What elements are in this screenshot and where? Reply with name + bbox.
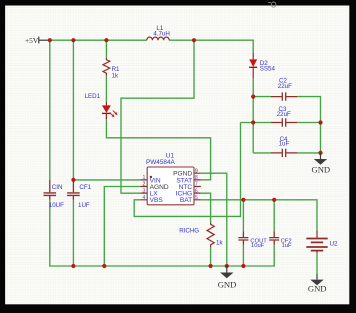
wire CF1 bottom [72, 200, 74, 267]
pin 1 marker dot [150, 176, 152, 178]
wire +5V rail left of L1 [48, 39, 147, 41]
svg-text:22uF: 22uF [278, 83, 292, 90]
svg-text:PW4584A: PW4584A [146, 159, 176, 166]
svg-text:CIN: CIN [52, 184, 63, 191]
svg-text:4: 4 [143, 195, 146, 201]
svg-text:+5V: +5V [25, 36, 39, 45]
wire COUT bottom [242, 245, 244, 267]
stray grey glyph top edge [268, 2, 276, 7]
svg-text:LED1: LED1 [85, 93, 101, 100]
svg-text:BAT: BAT [180, 197, 192, 204]
wire AGND pin to ground rail [104, 187, 140, 267]
wire ICHG pin to RICHG [201, 193, 211, 222]
wire ground rail [50, 200, 274, 267]
wire R1 drop [105, 40, 107, 58]
svg-text:1UF: 1UF [78, 202, 90, 209]
svg-text:6: 6 [195, 188, 198, 194]
node GND rail junctions [71, 264, 75, 268]
wire LED1 cathode to STAT pin [106, 117, 210, 180]
svg-text:3: 3 [143, 188, 146, 194]
wire VBS net under IC [134, 123, 240, 217]
wire C3 row [241, 122, 321, 124]
svg-text:2: 2 [143, 182, 146, 188]
wire VIN pin to CF1 junction [73, 179, 140, 181]
svg-text:SS54: SS54 [260, 66, 276, 73]
wire CF2 top [273, 200, 275, 232]
wire U2 bottom to GND [316, 253, 318, 274]
svg-text:1uF: 1uF [282, 243, 292, 249]
wire CIN drop [49, 40, 51, 180]
svg-text:GND: GND [311, 164, 330, 174]
wire COUT top [242, 200, 244, 232]
node BAT junctions [241, 198, 245, 202]
svg-text:1k: 1k [112, 72, 119, 79]
wire CF1 drop [72, 40, 74, 180]
wire RICHG bottom [210, 247, 212, 266]
node +5V junctions [48, 38, 52, 42]
wire BAT pin row to U2 [201, 200, 317, 231]
svg-text:GND: GND [218, 279, 237, 289]
svg-text:1: 1 [143, 175, 146, 181]
wire LX net from rail junction [121, 40, 194, 193]
pin stubs left [140, 180, 147, 200]
node GND right junctions [318, 120, 322, 124]
svg-text:22uF: 22uF [277, 111, 291, 118]
node LX junction [192, 38, 196, 42]
svg-text:U2: U2 [330, 240, 338, 247]
node VOUT junctions [251, 95, 255, 99]
svg-text:1k: 1k [216, 239, 223, 246]
svg-text:CF1: CF1 [79, 184, 91, 191]
wire PGND pin to ground rail [201, 173, 227, 266]
wire D2 cathode vertical (node VOUT) [252, 78, 254, 153]
svg-text:8: 8 [195, 175, 198, 181]
wire C4 row [253, 152, 320, 154]
svg-text:9: 9 [195, 168, 198, 174]
svg-text:VBS: VBS [150, 197, 164, 204]
node VIN junction [71, 178, 75, 182]
svg-text:4.7uH: 4.7uH [153, 31, 170, 38]
svg-text:7: 7 [195, 182, 198, 188]
svg-text:1uF: 1uF [279, 141, 290, 148]
wire R1 to LED1 [105, 76, 107, 102]
svg-text:GND: GND [308, 284, 327, 294]
svg-text:10UF: 10UF [49, 202, 64, 209]
wire C2 row [253, 97, 320, 153]
wire +5V rail right of L1 to D2 corner [169, 40, 253, 53]
svg-text:5: 5 [195, 195, 198, 201]
svg-text:10uF: 10uF [251, 243, 265, 249]
svg-text:RICHG: RICHG [179, 228, 199, 235]
pin stubs right [194, 173, 201, 200]
